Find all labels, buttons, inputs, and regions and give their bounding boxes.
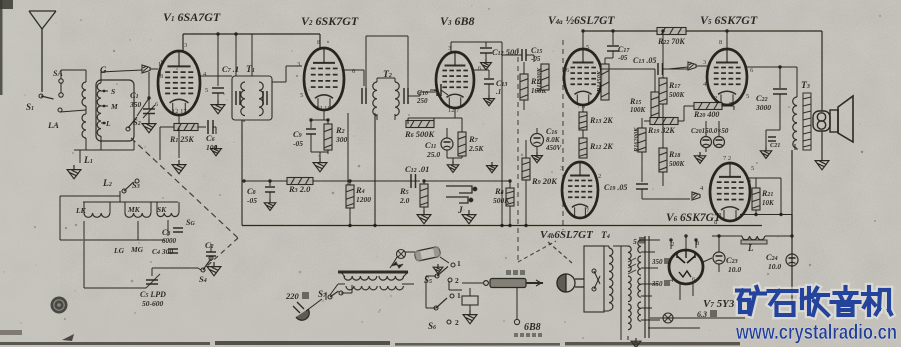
svg-text:12 7: 12 7 [448, 107, 460, 114]
resistor R16 [638, 128, 646, 152]
svg-text:5: 5 [751, 165, 754, 172]
resistor R2 [327, 120, 329, 124]
resistor R14 [604, 58, 606, 64]
svg-text:R6 500K: R6 500K [404, 129, 436, 139]
capacitor C11 [441, 138, 453, 150]
svg-text:R22 70K: R22 70K [657, 37, 685, 46]
wire under V1 [178, 127, 180, 158]
wire V6 plate down [748, 177, 781, 179]
svg-text:LG: LG [113, 246, 125, 255]
svg-text:R1450K: R1450K [596, 70, 603, 93]
svg-text:M: M [110, 102, 118, 111]
coil MK [125, 213, 151, 217]
svg-text:12 17: 12 17 [172, 108, 187, 115]
svg-text:6.3: 6.3 [697, 310, 707, 319]
svg-text:R11300K: R11300K [536, 67, 543, 93]
speaker driver [830, 110, 838, 132]
wire V1 plate to T1 [200, 75, 232, 77]
transformer T5 taps [641, 239, 660, 241]
wire plug [306, 299, 322, 311]
wire C1 [148, 72, 150, 109]
capacitor C12 [411, 174, 416, 188]
wire T1 top [235, 34, 237, 76]
wire B+ rail [791, 215, 793, 311]
svg-text:V3 6B8: V3 6B8 [440, 14, 475, 28]
svg-text:8: 8 [719, 39, 722, 46]
transformer FT core [338, 271, 408, 274]
ground V2 [313, 158, 327, 172]
svg-text:7 2: 7 2 [723, 155, 731, 162]
svg-text:MK: MK [127, 205, 141, 214]
capacitor C17 [612, 31, 614, 45]
wire V3 top [450, 42, 452, 52]
svg-text:8: 8 [160, 73, 163, 80]
resistor R12 [582, 130, 584, 138]
tube V7 5Y3 [669, 250, 703, 284]
dashed plug diag [518, 241, 556, 262]
svg-text:www.crystalradio.cn: www.crystalradio.cn [735, 320, 897, 344]
svg-text:2: 2 [455, 276, 459, 285]
wire choke [712, 235, 742, 237]
wire chassis bus [242, 225, 762, 227]
dashed plug line [517, 48, 519, 260]
svg-text:350: 350 [129, 100, 142, 109]
capacitor C24 [786, 254, 798, 266]
box divider 2 [374, 113, 376, 226]
tube V5 6SK7GT [707, 49, 747, 105]
svg-text:350: 350 [651, 280, 663, 288]
capacitor C12-500 [485, 42, 487, 47]
ground C13 [484, 95, 495, 106]
tube V4a 6SL7GT [564, 49, 602, 105]
svg-text:50-600: 50-600 [142, 299, 163, 308]
wire T2 tops [365, 36, 367, 88]
hatch marks T5 [628, 258, 636, 274]
ground C22 [760, 147, 771, 158]
svg-text:220: 220 [285, 291, 300, 301]
svg-text:2: 2 [455, 318, 459, 327]
tube V2 6SK7GT [304, 48, 344, 110]
svg-text:5: 5 [633, 237, 637, 246]
svg-text:1: 1 [160, 59, 163, 66]
resistor R9b [533, 55, 535, 62]
svg-text:R12 2K: R12 2K [589, 142, 613, 151]
ground C7 [211, 100, 225, 114]
ground speaker [815, 156, 829, 170]
svg-text:R1 25K: R1 25K [169, 135, 194, 144]
tube V6 6SK7GT [710, 163, 750, 221]
ground C11 [447, 161, 458, 172]
svg-text:6000: 6000 [162, 237, 177, 245]
T4 input plug [557, 274, 584, 292]
grid cap V6 [692, 192, 700, 200]
ground under C1 [142, 119, 156, 133]
wire top bus right [583, 30, 822, 32]
wire V3 bottom [454, 108, 456, 118]
svg-text:G: G [100, 65, 107, 75]
svg-text:2: 2 [598, 173, 601, 180]
wire to V6 grid [641, 196, 643, 199]
svg-text:S: S [111, 87, 115, 96]
jack J [446, 186, 477, 203]
tube V3 6B8 [436, 52, 474, 108]
svg-text:2: 2 [714, 95, 717, 102]
wire T2 bottom [376, 114, 378, 120]
transformer T2 [373, 82, 377, 116]
wire T1 to V2 [272, 81, 286, 83]
ground C16 [532, 152, 543, 163]
capacitor C15 [522, 49, 526, 61]
resistor R11 [541, 64, 549, 90]
ground C20 [694, 152, 705, 163]
svg-text:-05: -05 [531, 55, 541, 63]
transformer FT top winding [344, 276, 377, 280]
wire out bus [740, 214, 792, 216]
svg-text:R9 20K: R9 20K [531, 176, 558, 186]
tiny label 6B8 [514, 333, 518, 337]
wire to plug [449, 289, 462, 291]
svg-text:100K: 100K [630, 106, 647, 114]
svg-text:MG: MG [130, 245, 144, 254]
svg-text:C7 .1: C7 .1 [222, 64, 239, 74]
watermark characters [737, 287, 891, 315]
svg-text:?: ? [586, 207, 589, 214]
wire coil bottoms [83, 221, 85, 240]
wire V2 plate to T2 [344, 69, 364, 71]
wire S5 S6 [426, 275, 436, 277]
wire V1 cathode [178, 115, 180, 127]
dashed gang line [131, 138, 238, 238]
switch S7 [328, 295, 332, 299]
wire C17 R14 [605, 57, 613, 59]
tiny label plug [506, 270, 511, 275]
wire V5 mid [683, 106, 685, 121]
switch S5 [435, 274, 439, 278]
wire T2 to V3 [408, 95, 420, 97]
box divider 1 [241, 120, 243, 226]
svg-text:C5 LPD: C5 LPD [140, 290, 166, 299]
svg-text:L: L [747, 243, 754, 253]
resistor R22 [657, 28, 686, 35]
svg-text:300: 300 [335, 135, 348, 144]
svg-text:LA: LA [47, 120, 59, 130]
wire C22 gnd [766, 129, 780, 131]
svg-text:10K: 10K [762, 199, 775, 207]
capacitor C9 [310, 120, 312, 128]
ground T5 [631, 338, 641, 347]
svg-text:5: 5 [300, 92, 303, 99]
svg-text:450V: 450V [545, 144, 563, 152]
svg-text:LK: LK [75, 206, 87, 215]
resistor R9 [525, 140, 527, 158]
wire C11 R7 join [447, 157, 462, 159]
svg-text:R16200K: R16200K [633, 127, 640, 153]
resistor R15 [654, 69, 656, 92]
wire speaker [821, 31, 823, 111]
switch S3 [122, 189, 126, 193]
wire T3 bottom [794, 144, 796, 150]
transformer T5 winding 6.3 [638, 302, 641, 321]
wire cathode join [311, 151, 328, 153]
ground plug [463, 310, 477, 324]
transformer T5 winding 5V [638, 240, 641, 253]
wire coil bottom [74, 149, 134, 151]
T4 switch [592, 269, 596, 273]
transformer T5 core [645, 236, 649, 338]
coil LK [84, 213, 110, 217]
svg-text:.1: .1 [496, 88, 501, 96]
wire top bus V1-V2 [183, 33, 320, 35]
wire T5 left [621, 245, 628, 247]
bottom wedge [62, 334, 74, 341]
ground V1 [172, 160, 186, 174]
plug 220V [293, 302, 309, 320]
capacitor C8 [269, 181, 271, 186]
capacitor C20 [701, 137, 712, 148]
resistor under plug [469, 288, 471, 296]
ground diode [487, 162, 498, 173]
wire screen feed [501, 42, 503, 225]
svg-text:-05: -05 [247, 196, 257, 205]
dashed gang line 2 [207, 238, 238, 266]
wire V4a plate line [601, 68, 655, 70]
svg-text:6B8: 6B8 [524, 322, 541, 333]
resistor R7 [461, 118, 463, 132]
ground C12-500 [481, 59, 492, 70]
resistor R21 [755, 178, 757, 188]
svg-text:8.0K: 8.0K [546, 136, 561, 144]
svg-text:250: 250 [416, 97, 428, 105]
resistor R17 [662, 31, 664, 78]
node SA [59, 79, 63, 83]
capacitor C1 [143, 109, 155, 114]
capacitor C2 [206, 252, 216, 256]
ground C8 [264, 199, 275, 210]
ground R5 [417, 210, 431, 224]
coil G winding [97, 83, 101, 136]
svg-text:3: 3 [560, 165, 563, 172]
switch S6 [434, 306, 438, 310]
choke L [742, 236, 765, 240]
capacitor C19 [636, 184, 648, 189]
svg-text:25.0: 25.0 [426, 150, 440, 159]
transformer T3 core [803, 93, 811, 150]
resistor R5 [423, 181, 425, 184]
capacitor C22 [779, 67, 781, 88]
svg-text:5: 5 [746, 93, 749, 100]
scan edge left [0, 0, 3, 95]
transformer T5 winding 350a [638, 256, 641, 275]
svg-text:500K: 500K [669, 160, 686, 168]
wire R6 left [407, 118, 409, 124]
svg-text:500K: 500K [669, 91, 686, 99]
wire antenna to coil [60, 110, 86, 112]
wire R3 line [244, 180, 420, 182]
svg-text:7 8: 7 8 [577, 103, 585, 110]
wire lamp [390, 262, 394, 268]
tube V1 6SA7GT [158, 51, 200, 115]
svg-text:V7 5Y3: V7 5Y3 [703, 298, 735, 310]
svg-text:2.5K: 2.5K [468, 144, 484, 153]
ground C6 [211, 145, 222, 156]
wire V2 cathode [323, 110, 325, 120]
stamp [51, 297, 68, 314]
svg-text:2: 2 [671, 241, 674, 248]
wire coil taps [101, 90, 108, 92]
wire coil row top [83, 201, 178, 203]
capacitor C13 [488, 70, 490, 78]
terminal 6B8 [514, 319, 519, 324]
resistor R1 [174, 124, 198, 131]
resistor R19 [650, 118, 678, 125]
pilot lamp [663, 313, 673, 323]
speaker voice coil [813, 111, 830, 131]
resistor R3 [287, 178, 313, 185]
speaker cone [838, 96, 853, 142]
resistor R20 [694, 103, 722, 110]
svg-text:12 11: 12 11 [316, 105, 330, 112]
dashed shield line [562, 40, 564, 230]
wire V5 top [726, 31, 728, 49]
svg-text:C19 .05: C19 .05 [604, 183, 627, 192]
svg-text:3: 3 [703, 59, 706, 66]
transformer T5 secondary [628, 246, 631, 272]
svg-text:R13 2K: R13 2K [589, 116, 613, 125]
svg-text:5: 5 [586, 44, 589, 51]
grid cap V5 [688, 62, 696, 70]
capacitor C23 [713, 252, 725, 264]
svg-text:3: 3 [297, 61, 300, 68]
wire 6B8 terminal [516, 288, 518, 319]
svg-text:1: 1 [457, 291, 461, 300]
capacitor C5 variable [146, 280, 158, 284]
ground J [462, 210, 476, 224]
resistor R6 [406, 121, 434, 128]
svg-text:SK: SK [157, 205, 167, 214]
capacitor C10 [437, 84, 441, 96]
svg-text:3: 3 [184, 42, 187, 49]
svg-text:5: 5 [205, 87, 208, 94]
wire C5 to S4 [151, 268, 153, 276]
svg-text:-05: -05 [618, 54, 628, 62]
wire filament [650, 317, 745, 319]
capacitor C7 [217, 34, 219, 86]
transformer T5 winding 350b [638, 278, 641, 297]
wire V4a top [582, 31, 584, 49]
transformer T4 box [584, 246, 604, 312]
wire L2 row [60, 195, 120, 197]
svg-text:1200: 1200 [356, 195, 371, 204]
svg-text:C20150.0×50: C20150.0×50 [691, 127, 729, 135]
svg-text:C21: C21 [770, 142, 780, 149]
resistor R4 [346, 185, 354, 208]
svg-text:10.0: 10.0 [768, 262, 781, 271]
wire V7 filament [679, 284, 681, 300]
switch S4 [201, 268, 205, 272]
wire FT connections [338, 283, 345, 285]
wire V5 plate [747, 66, 797, 68]
phone plug [484, 279, 543, 288]
svg-text:C12 .01: C12 .01 [405, 164, 429, 174]
svg-text:C13 .05: C13 .05 [633, 56, 656, 65]
svg-text:R3 2.0: R3 2.0 [288, 184, 311, 194]
wire to C5 [83, 240, 85, 288]
svg-text:R20 400: R20 400 [693, 110, 719, 119]
svg-text:2.0: 2.0 [399, 196, 410, 205]
capacitor C21 [768, 137, 776, 141]
resistor R18 [662, 104, 664, 148]
wire T4 to T5 [613, 245, 621, 247]
capacitor C3 [173, 228, 183, 232]
svg-text:-05: -05 [293, 139, 303, 148]
transformer T3 primary [793, 97, 797, 123]
coil box G [96, 80, 134, 141]
antenna [29, 11, 56, 92]
svg-text:8: 8 [317, 39, 320, 46]
transformer T4 coil [609, 248, 613, 310]
wire V7 plate [685, 236, 687, 250]
svg-text:500K: 500K [493, 196, 510, 205]
capacitor C6 [208, 120, 213, 134]
svg-text:3000: 3000 [755, 103, 771, 112]
ground L1 [67, 165, 81, 179]
svg-text:C4 300: C4 300 [152, 247, 173, 256]
resistor R13 [582, 105, 584, 112]
transformer FT bottom winding [346, 286, 377, 290]
svg-text:1: 1 [457, 259, 461, 268]
lamp [397, 250, 406, 259]
switch S1 [39, 94, 43, 98]
switch S2 [126, 127, 130, 131]
wire T1 bottom to bus [243, 120, 245, 122]
junction dots [268, 179, 271, 182]
svg-text:10.0: 10.0 [728, 265, 741, 274]
svg-text:R19 32K: R19 32K [647, 126, 675, 135]
wire det line [424, 180, 510, 182]
ground C2 [207, 262, 221, 276]
capacitor C13-05 [658, 63, 663, 75]
coil L1 left winding [82, 82, 86, 106]
fuse [414, 246, 441, 261]
capacitor C4 [168, 249, 178, 253]
tube V4b half [562, 162, 598, 218]
wire V1 left feed [159, 127, 161, 160]
capacitor C16 [531, 134, 544, 147]
dashed V4b line [548, 242, 572, 263]
svg-text:350: 350 [651, 258, 663, 266]
resistor R8 [509, 181, 511, 188]
transformer T1 [232, 76, 272, 120]
wire V3 right [474, 69, 489, 71]
resistor R10 [523, 62, 525, 74]
grid cap V1 [142, 65, 150, 73]
coil SK [157, 213, 179, 217]
scan edge bottom [0, 330, 740, 346]
